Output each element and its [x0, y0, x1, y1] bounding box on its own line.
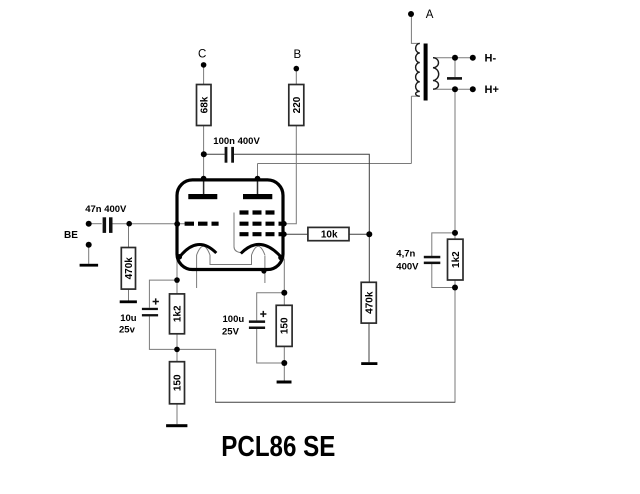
svg-text:1k2: 1k2	[173, 305, 184, 322]
svg-text:C: C	[198, 49, 206, 61]
svg-text:100u: 100u	[223, 314, 245, 325]
svg-text:100n 400V: 100n 400V	[213, 136, 260, 147]
svg-text:PCL86 SE: PCL86 SE	[221, 431, 335, 463]
svg-text:1k2: 1k2	[451, 251, 462, 268]
svg-text:400V: 400V	[396, 262, 419, 273]
svg-text:B: B	[294, 49, 302, 61]
svg-text:470k: 470k	[124, 257, 135, 280]
svg-text:25v: 25v	[119, 325, 136, 336]
svg-text:BE: BE	[64, 230, 78, 241]
svg-text:47n 400V: 47n 400V	[85, 204, 127, 215]
svg-text:150: 150	[173, 374, 184, 391]
svg-text:25V: 25V	[222, 327, 240, 338]
svg-text:H-: H-	[485, 53, 497, 65]
svg-text:A: A	[426, 9, 434, 21]
svg-text:10u: 10u	[120, 313, 137, 324]
svg-text:10k: 10k	[321, 230, 338, 241]
svg-text:470k: 470k	[364, 291, 375, 314]
svg-text:150: 150	[280, 317, 291, 334]
svg-text:H+: H+	[485, 84, 499, 96]
svg-text:220: 220	[292, 96, 303, 113]
svg-text:68k: 68k	[199, 96, 210, 113]
svg-text:4,7n: 4,7n	[396, 249, 415, 260]
